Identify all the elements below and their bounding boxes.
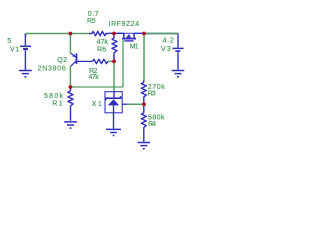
junction node R6-R2 — [112, 60, 116, 64]
wire gate vertical to M1 — [123, 41, 125, 87]
shunt regulator X1 box — [105, 92, 122, 113]
battery V1 — [20, 34, 31, 70]
ground below V1 — [19, 71, 32, 77]
junction node gate-R1 — [69, 85, 73, 89]
wire gate node horizontal — [70, 86, 123, 88]
svg-text:R3: R3 — [148, 91, 156, 98]
svg-text:47k: 47k — [89, 74, 100, 81]
wire Q2 collector drop to gate node — [69, 66, 71, 87]
ground below V3 — [172, 71, 185, 77]
battery V3 — [172, 34, 183, 70]
svg-text:2N3906: 2N3906 — [38, 65, 66, 72]
resistor R1 580k — [68, 88, 73, 121]
label R3 — [148, 91, 156, 98]
svg-text:R4: R4 — [148, 121, 156, 128]
resistor R2 47k — [93, 59, 108, 64]
junction node rail-R6 — [112, 32, 116, 36]
label V3 — [161, 46, 171, 53]
label M1 — [130, 43, 139, 50]
wire rail right M1 drain to V3 — [134, 32, 178, 34]
svg-text:0.7: 0.7 — [88, 11, 99, 18]
label V1 — [10, 47, 19, 54]
junction node divider-ref — [142, 102, 146, 106]
svg-text:R5: R5 — [87, 18, 96, 25]
label R1 — [52, 100, 62, 107]
svg-text:4.2: 4.2 — [163, 38, 174, 45]
wire R6 bottom to X1 cathode — [113, 60, 115, 92]
svg-text:V3: V3 — [161, 46, 171, 53]
X1 cathode lead — [113, 92, 115, 98]
label R4 — [148, 121, 156, 128]
label R4 value 580k — [148, 114, 165, 121]
label R6 — [97, 47, 106, 54]
wire top rail left from V1 to R5 — [25, 33, 89, 36]
svg-text:47k: 47k — [97, 39, 109, 46]
label V1 value 5 — [7, 38, 11, 45]
X1 diode triangle — [108, 99, 119, 105]
label R2 — [89, 68, 97, 75]
label R3 value 270k — [148, 84, 166, 91]
label V3 value 4.2 — [163, 38, 174, 45]
wire X1 ref to divider — [127, 103, 144, 105]
resistor R6 47k — [112, 34, 117, 60]
svg-text:580k: 580k — [44, 93, 64, 100]
ground below R1 — [64, 122, 77, 128]
label X1 — [92, 101, 102, 108]
resistor R4 580k — [141, 105, 146, 142]
label R1 value 580k — [44, 93, 64, 100]
ground below X1 — [106, 129, 121, 135]
svg-text:5: 5 — [7, 38, 11, 45]
label R5 value 0.7 — [88, 11, 99, 18]
svg-text:R1: R1 — [52, 100, 62, 107]
mosfet M1 IRF9Z24 — [122, 33, 136, 41]
label Q2 part 2N3906 — [38, 65, 66, 72]
svg-text:V1: V1 — [10, 47, 19, 54]
resistor R5 0.7 — [89, 31, 109, 36]
svg-text:M1: M1 — [130, 43, 139, 50]
junction node rail-output — [142, 32, 146, 36]
X1 anode lead — [113, 105, 115, 112]
X1 zener bar — [106, 96, 121, 100]
svg-text:Q2: Q2 — [57, 57, 67, 64]
svg-text:IRF9Z24: IRF9Z24 — [109, 21, 140, 28]
wire R2 right lead to node — [108, 60, 113, 62]
label R2 value 47k — [89, 74, 100, 81]
svg-text:R6: R6 — [97, 47, 106, 54]
svg-text:X1: X1 — [92, 101, 102, 108]
wire X1 anode to ground — [113, 113, 115, 129]
resistor R3 270k — [141, 80, 146, 104]
junction node rail-Q2 — [69, 32, 73, 36]
label M1 part IRF9Z24 — [109, 21, 140, 28]
label Q2 — [57, 57, 67, 64]
transistor Q2 2N3906 — [71, 53, 93, 66]
X1 ref stub — [122, 103, 127, 105]
label R5 — [87, 18, 96, 25]
wire Q2 emitter drop — [69, 34, 71, 54]
wire rail mid R5 to M1 — [109, 32, 134, 34]
wire output node down to R3 — [143, 34, 145, 80]
ground below R4 — [138, 143, 151, 149]
label R6 value 47k — [97, 39, 109, 46]
